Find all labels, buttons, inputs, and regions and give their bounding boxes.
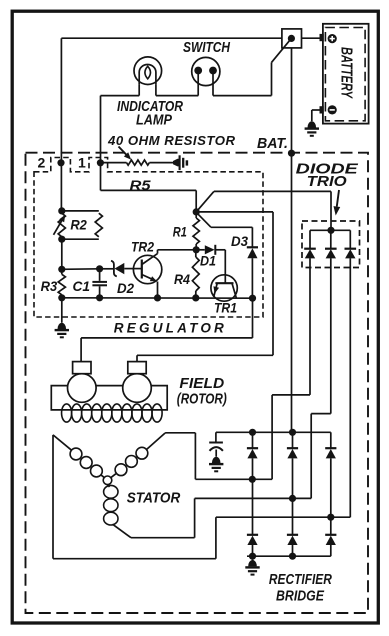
field brush 1 xyxy=(68,374,97,403)
junction phase A xyxy=(249,476,256,483)
rectifier diode bottom 1 xyxy=(252,479,254,534)
junction diode trio xyxy=(327,227,334,234)
junction gnd bus left xyxy=(249,553,256,560)
wire terminal1 branch to node xyxy=(101,189,197,191)
wire TR2 collector to R1 xyxy=(158,249,197,251)
battery minus terminal xyxy=(328,105,337,114)
junction connector xyxy=(288,35,295,42)
field rotor coil xyxy=(62,404,72,422)
capacitor C2 xyxy=(215,432,217,441)
stator winding upper-right xyxy=(147,433,166,450)
wire battery minus xyxy=(312,109,320,111)
field brush 2 xyxy=(123,374,152,403)
wire node riser xyxy=(195,190,197,212)
wire lamp-switch rail right xyxy=(213,95,272,97)
wire trio mid down xyxy=(330,258,332,413)
battery plus terminal xyxy=(328,34,337,43)
junction R1 bottom xyxy=(193,246,200,253)
wire top rail from terminal 2 to connector xyxy=(61,37,282,39)
svg-text:BAT.: BAT. xyxy=(257,136,288,152)
junction bus diode A xyxy=(249,429,256,436)
wire diagonal riser-connector xyxy=(272,39,292,63)
svg-text:BRIDGE: BRIDGE xyxy=(276,588,325,604)
diode trio D4 xyxy=(304,248,316,250)
svg-text:2: 2 xyxy=(38,155,46,171)
svg-text:LAMP: LAMP xyxy=(136,112,172,128)
junction phase C xyxy=(327,514,334,521)
wire R2 to R3 node xyxy=(61,239,63,269)
junction rail TR2 xyxy=(154,294,161,301)
ground capacitor xyxy=(212,457,221,464)
wire lamp-switch rail middle xyxy=(156,95,198,97)
ground regulator xyxy=(58,323,67,330)
junction rail R3 xyxy=(58,294,65,301)
indicator lamp xyxy=(134,57,162,85)
stator winding bottom xyxy=(108,485,110,487)
stator Y center xyxy=(103,476,112,485)
arrow to diode trio xyxy=(337,190,339,207)
wire trio right down xyxy=(349,258,351,517)
svg-text:D3: D3 xyxy=(231,233,248,249)
svg-text:STATOR: STATOR xyxy=(127,491,181,507)
regulator box (dashed) xyxy=(34,158,263,318)
transistor TR1 xyxy=(211,275,237,301)
wire node diagonal up xyxy=(196,191,214,212)
wire TR1 to field xyxy=(252,298,254,338)
alternator enclosure (dashed) xyxy=(26,153,369,613)
junction gnd bus mid xyxy=(289,553,296,560)
svg-text:R2: R2 xyxy=(70,217,87,233)
svg-text:1: 1 xyxy=(78,155,86,171)
arrow to R5 xyxy=(119,147,128,156)
junction terminal 2 xyxy=(57,159,64,166)
zener diode D2 xyxy=(103,268,114,270)
wire node to diode trio xyxy=(214,190,331,192)
junction rail R4 xyxy=(192,294,199,301)
svg-text:TR2: TR2 xyxy=(131,239,154,255)
wire BAT riser xyxy=(291,48,293,432)
rectifier diode top 2 xyxy=(292,432,294,448)
diode trio D5 xyxy=(325,248,337,250)
connector box xyxy=(282,29,302,48)
wire terminal-2 riser xyxy=(60,38,62,211)
svg-text:40 OHM RESISTOR: 40 OHM RESISTOR xyxy=(107,133,235,148)
field brush tray xyxy=(51,386,167,410)
junction R2 top xyxy=(58,207,65,214)
wire node to field horizontal xyxy=(196,211,273,213)
ground rectifier xyxy=(248,560,257,567)
rectifier diode bottom 3 xyxy=(330,517,332,534)
svg-text:R1: R1 xyxy=(173,224,187,240)
wire R2 bottom xyxy=(62,238,99,240)
wire terminal1 to R5 xyxy=(100,162,126,164)
svg-text:R3: R3 xyxy=(41,278,58,294)
svg-text:SWITCH: SWITCH xyxy=(183,40,230,56)
wire R2 top xyxy=(62,210,99,212)
svg-text:BATTERY: BATTERY xyxy=(338,47,355,99)
wire phase B xyxy=(131,537,195,539)
wire field riser right xyxy=(272,212,274,355)
wire terminal-1 riser xyxy=(100,96,102,191)
junction terminal 1 xyxy=(97,159,104,166)
wire R3node to C1 xyxy=(62,268,100,271)
junction BAT terminal xyxy=(288,150,295,157)
junction C1 top xyxy=(96,265,103,272)
diode D1 xyxy=(196,249,205,251)
diode trio D6 xyxy=(345,248,357,250)
battery B1 xyxy=(323,24,369,124)
diode D3 xyxy=(247,246,258,248)
wire rectifier ground stem xyxy=(252,556,254,560)
wire phase C xyxy=(52,435,54,559)
wire lamp-switch rail left xyxy=(101,95,140,97)
diode trio leads xyxy=(309,230,311,248)
junction R3 top xyxy=(58,266,65,273)
junction bus BAT xyxy=(289,429,296,436)
wire rectifier ground bus xyxy=(247,555,331,557)
resistor R2 (adjustable) xyxy=(58,213,65,237)
wire connector to battery xyxy=(302,37,323,39)
rectifier diode top 1 xyxy=(252,432,254,448)
junction rail D3 xyxy=(249,295,256,302)
wire ground rail xyxy=(62,297,253,299)
resistor R5 (40 ohm) xyxy=(127,160,150,165)
diode trio box (dashed) xyxy=(302,221,360,268)
wire node diagonal down xyxy=(198,214,211,228)
wire D1 to TR1 base xyxy=(224,250,226,283)
resistor R4 xyxy=(195,250,197,257)
svg-text:RECTIFIER: RECTIFIER xyxy=(269,572,332,588)
resistor R2b parallel xyxy=(95,213,102,237)
wire trio left down xyxy=(309,258,311,395)
wire phase A xyxy=(165,432,195,434)
junction rail C1 xyxy=(96,294,103,301)
svg-text:REGULATOR: REGULATOR xyxy=(114,320,224,335)
junction node A xyxy=(193,208,200,215)
wire to field brush 2 xyxy=(137,354,273,356)
svg-text:D1: D1 xyxy=(200,253,216,269)
svg-text:C1: C1 xyxy=(72,278,90,294)
rectifier diode top 3 xyxy=(330,432,332,448)
junction phase B xyxy=(289,495,296,502)
svg-text:TRIO: TRIO xyxy=(307,174,348,190)
svg-text:R4: R4 xyxy=(174,271,190,287)
transistor TR2 xyxy=(133,255,161,283)
resistor R1 xyxy=(195,212,197,218)
switch xyxy=(192,57,220,85)
ground battery xyxy=(308,121,317,128)
stator winding upper-left xyxy=(53,435,72,450)
svg-text:TR1: TR1 xyxy=(214,300,237,316)
connector plug symbol xyxy=(173,159,179,167)
wire D3 to rail xyxy=(251,258,253,298)
svg-text:FIELD: FIELD xyxy=(179,376,224,392)
svg-text:D2: D2 xyxy=(117,280,134,296)
junction R2 bottom xyxy=(58,236,65,243)
wire regulator ground stem xyxy=(61,298,63,323)
svg-text:(ROTOR): (ROTOR) xyxy=(177,391,227,407)
wire diode trio bus xyxy=(310,229,350,231)
rectifier diode bottom 2 xyxy=(292,498,294,534)
wire output bus xyxy=(216,431,331,433)
wire diode trio riser xyxy=(330,191,332,230)
wire right riser to connector xyxy=(271,62,273,95)
capacitor C1 xyxy=(99,269,101,281)
wire to D3 xyxy=(211,226,252,228)
resistor R3 xyxy=(61,269,63,274)
